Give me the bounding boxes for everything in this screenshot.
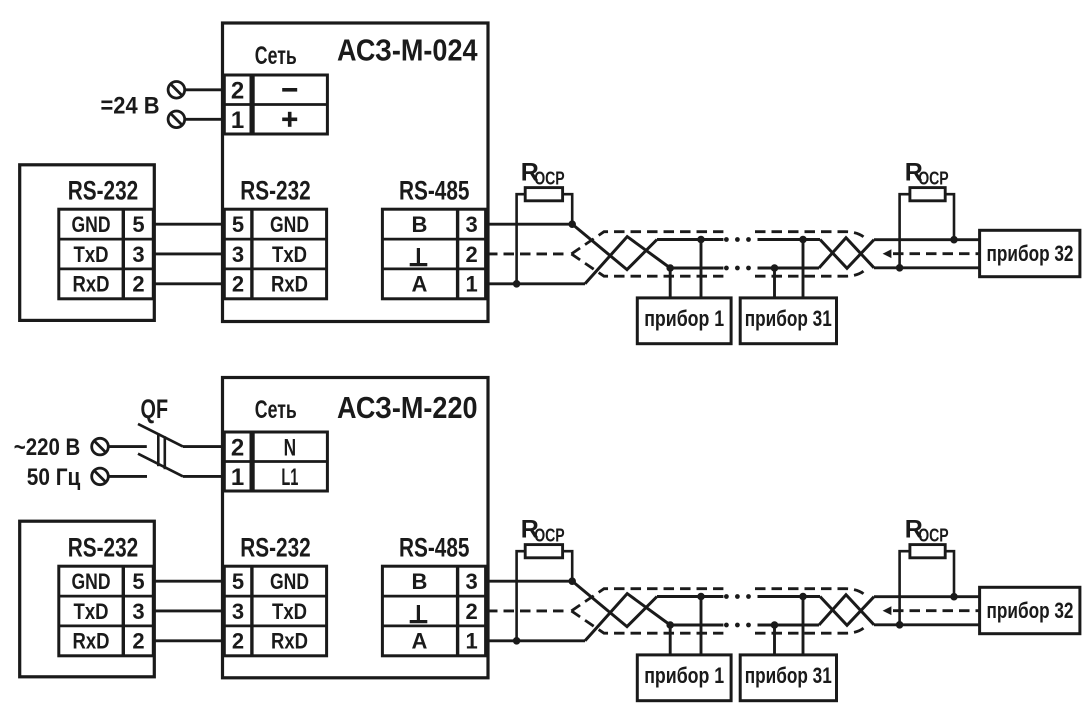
connector P1 outer box [20,165,155,321]
resistor R2a right lead [563,551,573,581]
svg-text:RxD: RxD [73,629,110,654]
svg-text:2: 2 [465,599,477,624]
device RS-232 terminal table [224,566,326,656]
bus lower line right (1) [758,267,820,270]
junction dot R1b left (1) [896,265,903,272]
screw terminal upper (220V) [92,438,109,455]
svg-text:прибор 31: прибор 31 [745,306,832,331]
svg-text:TxD: TxD [272,242,307,267]
svg-text:RS-232: RS-232 [68,532,139,562]
device box pribor 1 (2) [637,655,731,701]
wire screw to breaker upper [108,445,147,448]
svg-text:3: 3 [232,242,244,267]
device box pribor 1 (1) [637,298,731,344]
svg-text:A: A [412,629,428,654]
screw terminal upper (24V) [168,82,185,99]
junction dot device31 A tap (1) [771,265,778,272]
power terminal table U1 [224,75,251,134]
svg-text:2: 2 [231,434,244,461]
resistor R2b left lead [900,551,910,625]
resistor R1a left lead [517,194,526,284]
screw terminal lower (24V) [168,111,185,128]
twisted pair left twist wire B (1) [572,224,657,269]
bus upper line left (2) [657,595,723,598]
power terminal table U2 [224,432,251,491]
wire A from pin 1 (1) [487,282,585,285]
wire TxD P1 to device [155,252,225,255]
svg-text:RxD: RxD [271,272,308,297]
wire B to device32 (1) [874,238,980,241]
twisted pair right twist upper wire (2) [820,597,874,626]
twisted pair right twist lower wire (1) [819,238,874,268]
wire A to device32 (2) [874,623,980,626]
svg-text:RS-232: RS-232 [240,175,311,205]
svg-text:АСЗ-М-024: АСЗ-М-024 [337,33,478,68]
breaker QF lower pole contact [138,454,183,477]
svg-text:50 Гц: 50 Гц [27,464,81,491]
device box pribor 32 (2) [980,587,1080,633]
svg-text:2: 2 [465,242,477,267]
bus lower line left (1) [670,267,723,270]
svg-text:5: 5 [232,569,244,594]
twisted pair left twist wire A (1) [585,237,670,284]
power polarity minus [282,88,297,92]
svg-text:A: A [412,272,428,297]
svg-text:GND: GND [270,569,309,594]
svg-text:Сеть: Сеть [255,396,297,424]
svg-text:L1: L1 [281,464,298,491]
tap wire device31 A (2) [773,625,776,656]
tap wire device31 A (1) [773,268,776,299]
power polarity plus [282,118,297,122]
twisted pair right twist lower wire (2) [819,595,874,625]
svg-text:1: 1 [231,464,244,491]
shield envelope upper right (1) [755,232,864,238]
bus upper line break dots (1) [725,238,729,242]
svg-text:3: 3 [465,212,477,237]
svg-text:B: B [412,212,428,237]
svg-text:прибор 1: прибор 1 [644,663,724,688]
bus lower line break dots (2) [725,623,729,627]
svg-text:5: 5 [132,569,144,594]
svg-text:ОСР: ОСР [534,169,565,189]
shield wire from pin 2 (1) [487,253,566,256]
junction dot R2b right (2) [951,593,958,600]
wire screw to breaker lower [108,475,147,478]
wire breaker to pin 1 (L1) [183,475,225,478]
resistor R1b left lead [900,194,910,268]
twisted pair left twist wire A (2) [585,594,670,641]
junction dot A / R1a [513,281,520,288]
svg-text:1: 1 [465,629,477,654]
svg-text:ОСР: ОСР [534,526,565,546]
resistor R2b right lead [945,551,954,597]
svg-text:TxD: TxD [74,599,109,624]
junction dot device31 A tap (2) [771,622,778,629]
device box pribor 31 (1) [740,298,836,344]
svg-text:3: 3 [232,599,244,624]
wire breaker to pin 2 (N) [183,445,225,448]
wire screw to pin 1 [185,118,225,121]
svg-text:прибор 31: прибор 31 [745,663,832,688]
junction dot B / R2a [569,578,576,585]
junction dot device1 A tap (2) [667,622,674,629]
wire RxD P2 to device [155,639,225,642]
tap wire device31 B (2) [802,597,805,657]
shield wire from pin 2 (2) [487,610,566,613]
device U2 box AC3-M-220 [223,378,489,678]
svg-text:2: 2 [232,272,244,297]
wire A from pin 1 (2) [487,639,585,642]
twisted pair left twist wire B (2) [572,581,657,626]
svg-text:2: 2 [232,629,244,654]
wire screw to pin 2 [185,88,225,91]
svg-text:3: 3 [132,242,144,267]
svg-text:=24 В: =24 В [101,93,160,120]
svg-text:2: 2 [132,272,144,297]
shield arrow into cable (1) [883,249,892,258]
connector P2 terminal table [59,566,154,656]
svg-text:B: B [412,569,428,594]
shield envelope lower right (2) [755,628,864,634]
svg-text:RS-485: RS-485 [399,175,470,205]
resistor R1b body [910,188,945,201]
resistor R2b body [910,545,945,558]
wire B from pin 3 (1) [487,223,572,226]
svg-text:1: 1 [465,272,477,297]
shield wire to device32 (2) [893,609,980,612]
bus lower line right (2) [758,624,820,627]
svg-text:N: N [284,434,297,461]
bus upper line right (2) [758,595,821,598]
shield wire to device32 (1) [893,252,980,255]
resistor R1a right lead [563,194,573,224]
device RS-485 pin GND symbol 2 [410,263,428,266]
svg-text:АСЗ-М-220: АСЗ-М-220 [337,390,478,425]
tap wire device1 B (2) [700,597,703,657]
wire RxD P1 to device [155,282,225,285]
device U1 box AC3-M-024 [223,23,489,322]
tap wire device1 A (1) [669,268,672,299]
tap wire device1 B (1) [700,240,703,300]
svg-text:ОСР: ОСР [918,169,949,189]
svg-text:прибор 1: прибор 1 [644,306,724,331]
shield envelope upper left (1) [571,232,723,254]
resistor R1b right lead [945,194,954,240]
svg-text:QF: QF [141,394,169,424]
junction dot device31 B tap (1) [800,236,807,243]
svg-text:3: 3 [132,599,144,624]
device RS-232 terminal table [224,209,326,299]
resistor R1a body [525,188,562,201]
svg-text:RS-232: RS-232 [68,175,139,205]
svg-text:GND: GND [72,569,111,594]
svg-text:2: 2 [132,629,144,654]
shield arrow into cable (2) [883,606,892,615]
breaker QF linkage bars [157,433,160,466]
junction dot device1 B tap (1) [698,236,705,243]
wire A to device32 (1) [874,266,980,269]
connector P1 terminal table [59,209,154,299]
bus upper line right (1) [758,238,821,241]
svg-text:RS-232: RS-232 [240,532,311,562]
bus upper line break dots (2) [725,595,729,599]
svg-text:3: 3 [465,569,477,594]
svg-text:RxD: RxD [271,629,308,654]
wire TxD P2 to device [155,610,225,613]
wire GND P1 to device [155,223,225,226]
device RS-485 terminal table [382,566,485,656]
screw terminal lower (220V) [92,468,109,485]
device RS-485 pin GND symbol 2 [410,620,428,623]
svg-text:1: 1 [231,107,244,134]
svg-text:GND: GND [270,212,309,237]
svg-text:5: 5 [232,212,244,237]
svg-text:Сеть: Сеть [255,42,297,70]
junction dot R2b left (2) [896,622,903,629]
junction dot device1 B tap (2) [698,593,705,600]
device box pribor 31 (2) [740,655,836,701]
svg-text:2: 2 [231,77,244,104]
resistor R2a left lead [517,551,526,641]
svg-text:TxD: TxD [272,599,307,624]
bus upper line left (1) [657,238,723,241]
junction dot device1 A tap (1) [667,265,674,272]
junction dot device31 B tap (2) [800,593,807,600]
connector P2 outer box [20,521,155,677]
shield envelope upper left (2) [571,589,723,611]
bus lower line break dots (1) [725,266,729,270]
svg-text:RxD: RxD [73,272,110,297]
junction dot A / R2a [513,638,520,645]
wire B to device32 (2) [874,595,980,598]
svg-text:TxD: TxD [74,242,109,267]
resistor R2a body [525,545,562,558]
svg-text:прибор 32: прибор 32 [987,598,1074,623]
junction dot R1b right (1) [951,236,958,243]
svg-text:~220 В: ~220 В [14,434,81,461]
wire GND P2 to device [155,580,225,583]
twisted pair right twist upper wire (1) [820,240,874,269]
shield envelope upper right (2) [755,589,864,595]
shield envelope lower left (1) [571,254,723,276]
junction dot B / R1a [569,221,576,228]
svg-text:RS-485: RS-485 [399,532,470,562]
shield envelope lower left (2) [571,611,723,633]
wire B from pin 3 (2) [487,580,572,583]
svg-text:ОСР: ОСР [918,526,949,546]
svg-text:GND: GND [72,212,111,237]
device RS-485 terminal table [382,209,485,299]
svg-text:5: 5 [132,212,144,237]
device box pribor 32 (1) [980,230,1080,276]
svg-text:прибор 32: прибор 32 [987,241,1074,266]
shield envelope lower right (1) [755,271,864,277]
bus lower line left (2) [670,624,723,627]
breaker QF upper pole contact [138,424,183,447]
tap wire device1 A (2) [669,625,672,656]
tap wire device31 B (1) [802,240,805,300]
